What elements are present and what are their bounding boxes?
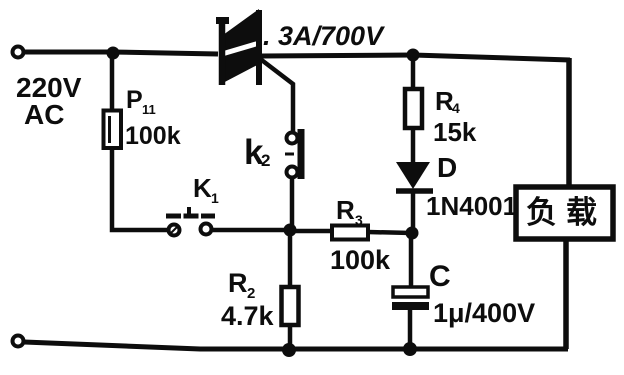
- svg-text:1: 1: [211, 190, 219, 206]
- label C designator: [429, 260, 451, 293]
- svg-text:负载: 负载: [526, 195, 606, 230]
- svg-text:100k: 100k: [125, 122, 181, 150]
- label 220V: [16, 72, 82, 103]
- wire: triac MT1 to top rail right section: [262, 55, 413, 56]
- label D value 1N4001: [426, 191, 517, 221]
- label R2 designator: [228, 268, 255, 302]
- svg-text:R: R: [228, 268, 248, 298]
- node: junction of R4 with top rail: [407, 49, 420, 62]
- svg-text:11: 11: [142, 102, 156, 117]
- label R4 designator: [435, 86, 460, 116]
- label R2 value 4.7k: [221, 301, 275, 331]
- diode D: [396, 162, 433, 191]
- svg-text:P: P: [126, 86, 143, 114]
- svg-text:. 3A/700V: . 3A/700V: [263, 21, 385, 51]
- terminal: 220V AC top input: [13, 47, 24, 58]
- capacitor C: [392, 287, 429, 310]
- svg-text:K: K: [193, 173, 212, 203]
- svg-text:D: D: [437, 152, 457, 183]
- load box (fu zai): [516, 187, 613, 239]
- switch K2 relay contact: [285, 129, 301, 179]
- wire: load box down to bottom rail: [563, 239, 569, 349]
- label R1 designator: [126, 86, 156, 117]
- svg-text:1N4001: 1N4001: [426, 191, 517, 221]
- node: R2 bottom-rail junction: [282, 343, 296, 357]
- svg-text:C: C: [429, 260, 451, 293]
- label R3 designator: [336, 195, 363, 228]
- svg-text:100k: 100k: [330, 245, 391, 275]
- label R1 value 100k: [125, 122, 181, 150]
- svg-text:1μ/400V: 1μ/400V: [433, 298, 535, 328]
- label D designator: [437, 152, 457, 183]
- label R3 value 100k: [330, 245, 391, 275]
- svg-text:4.7k: 4.7k: [221, 301, 275, 331]
- wire: K2 down to center junction: [290, 178, 295, 230]
- svg-text:4: 4: [452, 100, 460, 116]
- wire: center junction right to R3: [290, 229, 334, 234]
- terminal: 220V AC bottom input: [13, 336, 24, 347]
- switch K1 pushbutton: [166, 207, 215, 236]
- wire: top-rail junction down to R1: [110, 53, 115, 112]
- svg-text:2: 2: [261, 151, 270, 170]
- svg-text:AC: AC: [24, 99, 64, 130]
- node: capacitor bottom-rail junction: [403, 342, 417, 356]
- label AC: [24, 99, 64, 130]
- wire: R2 to bottom rail: [288, 325, 293, 350]
- wire: top rail from R4 junction to right corner: [413, 55, 570, 60]
- resistor R4: [405, 89, 422, 128]
- wire: bottom rail: [24, 342, 568, 349]
- svg-text:2: 2: [247, 285, 255, 302]
- wire: K1 to center junction node: [213, 228, 290, 233]
- wire: right rail down to load box: [566, 58, 572, 189]
- resistor R1: [104, 111, 122, 149]
- wire: R3 to diode/cap junction: [368, 232, 412, 233]
- resistor R3: [332, 226, 368, 240]
- svg-text:15k: 15k: [433, 117, 477, 147]
- resistor R2: [282, 287, 299, 325]
- node: junction of R1 with top rail: [107, 47, 120, 60]
- triac V1: [216, 9, 266, 85]
- wire: top rail from input terminal to triac MT2: [24, 52, 218, 54]
- wire: R4 down to diode anode: [411, 128, 416, 165]
- node: center junction (K1/K2/R2/R3): [284, 224, 297, 237]
- svg-text:3: 3: [355, 212, 363, 228]
- wire: junction down to capacitor C: [409, 233, 414, 288]
- label K2: [244, 133, 270, 172]
- label R4 value 15k: [433, 117, 477, 147]
- wire: center junction down to R2: [288, 230, 293, 288]
- label C value 1u/400V: [433, 298, 535, 328]
- label triac rating .3A/700V: [263, 21, 385, 51]
- wire: diode cathode to R3/C junction: [411, 191, 416, 230]
- label K1: [193, 173, 219, 206]
- node: junction of R3, D and C: [406, 227, 419, 240]
- wire: triac gate lead down to K2: [259, 58, 293, 131]
- svg-text:R: R: [336, 195, 355, 225]
- wire: top rail junction down to R4: [411, 55, 416, 90]
- wire: R1 bottom down and right to switch K1: [112, 148, 167, 230]
- wire: capacitor to bottom rail: [408, 310, 413, 350]
